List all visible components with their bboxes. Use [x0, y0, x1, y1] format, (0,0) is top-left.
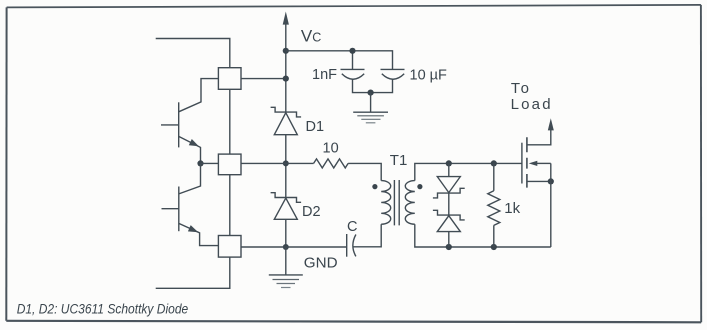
svg-text:T1: T1	[390, 152, 408, 169]
Vc rail arrow	[283, 12, 289, 25]
wire bus B2-B3	[229, 175, 231, 236]
wire secondary bottom rail	[415, 224, 551, 247]
Vc top rail wire to caps	[286, 51, 393, 70]
diode D4 (clamp bottom) cathode bar (schottky)	[433, 210, 465, 220]
wire node J1 to box B2	[201, 162, 219, 164]
node dot rail/1nF	[349, 48, 355, 54]
wire resistor to transformer primary	[348, 163, 381, 180]
wire secondary top rail to gate	[415, 163, 522, 180]
MOSFET M1 body arrow	[529, 161, 538, 166]
diode D1 cathode bar (schottky)	[271, 107, 302, 117]
diode D2 triangle	[274, 198, 297, 219]
node dot caps-ground	[368, 90, 374, 96]
svg-text:D2: D2	[302, 204, 321, 220]
resistor R1 10 ohm zigzag	[314, 159, 349, 168]
svg-text:10: 10	[323, 141, 339, 157]
svg-text:10 µF: 10 µF	[410, 68, 448, 84]
svg-text:D1: D1	[306, 119, 325, 135]
wire bus B1-B2	[229, 89, 231, 154]
node dot bottom/1k	[491, 244, 497, 250]
transistor Q2 emitter arrow	[188, 225, 198, 232]
capacitor C curved plate	[353, 235, 356, 257]
resistor R2 1k zigzag	[488, 191, 500, 226]
node A dot	[283, 160, 289, 166]
node dot Vc/top-rail	[283, 48, 289, 54]
transformer T1 secondary phase dot	[417, 184, 422, 189]
caps bottom leads and bottom wire	[353, 79, 393, 92]
diode D3 (clamp top) lead	[448, 163, 450, 176]
wire primary bottom to cap C	[353, 224, 382, 247]
diode D4 triangle (apex up)	[437, 216, 460, 232]
MOSFET M1 body lead	[537, 162, 551, 164]
wire between clamp diodes	[448, 193, 450, 215]
node dot source/body	[548, 178, 554, 184]
GND node dot	[283, 244, 289, 250]
diode D2 cathode bar (schottky)	[271, 193, 302, 203]
capacitor C flat plate	[346, 234, 348, 257]
transformer T1 secondary winding	[405, 181, 414, 225]
drain arrow to load	[548, 118, 554, 130]
wire top-left rail into driver bus	[156, 39, 230, 68]
transistor Q1 base bar	[178, 102, 180, 147]
diode D1 triangle	[274, 113, 297, 135]
transistor Q2 base lead	[162, 208, 179, 210]
transistor Q2 base bar	[178, 187, 180, 232]
svg-text:VC: VC	[301, 27, 321, 46]
wire D2 to GND node	[285, 219, 287, 247]
node dot top/diode pair	[446, 160, 452, 166]
Vc rail wire	[285, 22, 287, 112]
transistor Q1 emitter arrow	[189, 139, 199, 146]
capacitor 1nF top lead	[352, 51, 354, 70]
driver output box B1 (top)	[218, 68, 241, 90]
svg-text:GND: GND	[304, 254, 338, 271]
wire D1 to node A to D2	[285, 135, 287, 198]
capacitor C2 10uF plates	[381, 68, 405, 70]
svg-text:1k: 1k	[504, 200, 520, 217]
MOSFET M1 channel segments	[526, 137, 528, 187]
svg-text:1nF: 1nF	[312, 67, 337, 83]
wire box B1 to Vc rail	[241, 78, 286, 80]
node dot top/1k	[491, 160, 497, 166]
diode D3 cathode bar (schottky)	[433, 188, 465, 198]
wire box B3 to GND node to cap C	[241, 246, 347, 248]
transformer T1 primary winding	[381, 181, 391, 225]
MOSFET M1 drain lead	[527, 130, 551, 145]
transistor Q1 base lead	[161, 124, 179, 126]
transistor Q2 collector lead	[179, 163, 201, 194]
svg-text:Load: Load	[511, 96, 553, 113]
svg-text:D1, D2: UC3611 Schottky Diode: D1, D2: UC3611 Schottky Diode	[17, 302, 189, 317]
ground symbol below caps	[353, 93, 388, 123]
node A rail to resistor	[241, 162, 314, 164]
resistor R2 1k bottom lead	[493, 225, 495, 247]
MOSFET M1 source lead	[527, 180, 551, 182]
node dot bottom/diode pair	[446, 244, 452, 250]
transistor Q2 emitter lead	[179, 223, 219, 245]
border frame	[7, 5, 701, 8]
svg-text:To: To	[511, 80, 531, 97]
transistor Q1 emitter lead	[179, 136, 201, 163]
resistor R2 1k top lead	[493, 163, 495, 190]
driver output box B3 (bottom)	[218, 236, 241, 258]
node J1 dot (Q1 emitter / Q2 collector)	[197, 160, 203, 166]
ground symbol at GND node	[269, 247, 303, 288]
transformer T1 primary phase dot	[372, 184, 377, 189]
capacitor 1nF plates	[341, 68, 365, 70]
MOSFET M1 gate bar	[521, 143, 523, 184]
node dot Vc/B1 wire	[283, 76, 289, 82]
driver output box B2 (middle)	[218, 154, 241, 175]
diode D4 lead	[448, 232, 450, 247]
transformer T1 core	[394, 180, 399, 225]
diode D3 triangle (apex down)	[437, 177, 460, 193]
wire bus below B3 to bottom-left stub	[156, 257, 230, 288]
transistor Q1 collector lead	[179, 79, 219, 112]
svg-text:C: C	[347, 219, 357, 235]
wire source down to bottom rail	[550, 163, 552, 247]
